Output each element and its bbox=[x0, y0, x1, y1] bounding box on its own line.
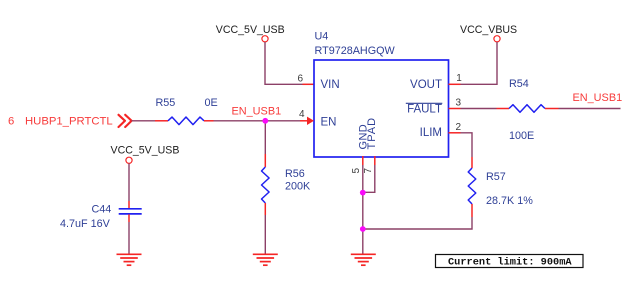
svg-text:28.7K 1%: 28.7K 1% bbox=[486, 195, 533, 207]
svg-text:6: 6 bbox=[8, 115, 14, 127]
svg-text:R56: R56 bbox=[285, 168, 305, 180]
wire junction down bbox=[362, 193, 364, 254]
svg-text:VCC_5V_USB: VCC_5V_USB bbox=[111, 145, 180, 157]
svg-text:Current limit: 900mA: Current limit: 900mA bbox=[448, 257, 572, 269]
svg-text:200K: 200K bbox=[285, 181, 311, 193]
svg-text:HUBP1_PRTCTL: HUBP1_PRTCTL bbox=[25, 115, 113, 127]
svg-text:U4: U4 bbox=[315, 31, 329, 43]
resistor R57 28.7K 1% bbox=[468, 157, 533, 217]
pin 1 stub VOUT bbox=[449, 73, 463, 84]
wire pin7 to pin5 bbox=[363, 165, 375, 192]
svg-text:R54: R54 bbox=[509, 78, 529, 90]
svg-text:EN: EN bbox=[321, 117, 337, 129]
svg-text:6: 6 bbox=[298, 74, 304, 85]
svg-text:2: 2 bbox=[456, 122, 462, 133]
junction node GND/TPAD bbox=[360, 190, 366, 196]
pin 2 stub ILIM bbox=[449, 122, 462, 133]
wire power to C44 bbox=[128, 164, 130, 202]
junction node EN_USB1 bbox=[262, 118, 268, 124]
svg-text:EN_USB1: EN_USB1 bbox=[573, 92, 623, 104]
svg-text:5: 5 bbox=[351, 168, 362, 174]
pin name FAULT (active low) bbox=[406, 103, 443, 115]
svg-text:4: 4 bbox=[299, 109, 305, 120]
ground (under U4 GND/TPAD) bbox=[351, 254, 376, 265]
capacitor C44 4.7uF 16V bbox=[60, 201, 142, 230]
svg-text:RT9728AHGQW: RT9728AHGQW bbox=[315, 45, 396, 57]
wire pin5 down bbox=[362, 165, 364, 193]
svg-text:VCC_VBUS: VCC_VBUS bbox=[460, 24, 517, 36]
svg-text:VOUT: VOUT bbox=[410, 79, 442, 91]
connector port 6 HUBP1_PRTCTL bbox=[8, 115, 132, 128]
wire R57 bottom to junction bbox=[363, 217, 472, 229]
pin 7 stub TPAD bbox=[363, 156, 375, 174]
wire R56 to ground bbox=[264, 215, 266, 254]
svg-text:C44: C44 bbox=[92, 204, 112, 216]
svg-text:VIN: VIN bbox=[321, 79, 340, 91]
IC U4 RT9728AHGQW (power switch) body bbox=[314, 31, 449, 158]
wire C44 to ground bbox=[128, 222, 130, 254]
svg-text:100E: 100E bbox=[509, 130, 534, 142]
pin 3 stub FAULT bbox=[449, 98, 462, 109]
svg-text:VCC_5V_USB: VCC_5V_USB bbox=[216, 24, 285, 36]
svg-text:1: 1 bbox=[456, 73, 462, 84]
junction node R57 return bbox=[360, 226, 366, 232]
power symbol VCC_VBUS bbox=[460, 24, 517, 42]
wire ILIM to R57 bbox=[461, 133, 473, 157]
svg-text:FAULT: FAULT bbox=[407, 104, 442, 116]
wire EN_USB1 junction down to R56 bbox=[264, 121, 266, 154]
svg-text:7: 7 bbox=[363, 168, 374, 174]
power symbol VCC_5V_USB (top) bbox=[216, 24, 285, 42]
svg-text:R57: R57 bbox=[486, 171, 506, 183]
svg-text:0E: 0E bbox=[205, 97, 218, 109]
pin 6 stub VIN bbox=[298, 74, 315, 85]
power symbol VCC_5V_USB (left, for C44) bbox=[111, 145, 180, 164]
resistor R55 0E bbox=[155, 97, 218, 125]
svg-text:TPAD: TPAD bbox=[366, 117, 378, 150]
wire VCC_VBUS to VOUT bbox=[461, 42, 498, 84]
ground (under R56) bbox=[253, 254, 278, 265]
wire R54 to EN_USB1 bbox=[559, 108, 621, 110]
svg-text:EN_USB1: EN_USB1 bbox=[232, 105, 282, 117]
wire R55 to EN pin bbox=[214, 120, 301, 122]
note box: Current limit 900mA bbox=[436, 255, 584, 269]
wire FAULT to R54 bbox=[461, 108, 497, 110]
pin 4 stub EN with arrow bbox=[299, 109, 314, 125]
svg-text:4.7uF 16V: 4.7uF 16V bbox=[60, 218, 111, 230]
svg-text:ILIM: ILIM bbox=[420, 127, 442, 139]
resistor R54 100E bbox=[497, 78, 559, 142]
wire VCC_5V_USB to VIN bbox=[265, 42, 303, 84]
svg-text:R55: R55 bbox=[156, 97, 176, 109]
wire port to R55 bbox=[132, 120, 155, 122]
ground (under C44) bbox=[117, 254, 142, 265]
pin 5 stub GND bbox=[351, 156, 363, 174]
resistor R56 200K bbox=[262, 154, 312, 215]
svg-text:3: 3 bbox=[456, 98, 462, 109]
